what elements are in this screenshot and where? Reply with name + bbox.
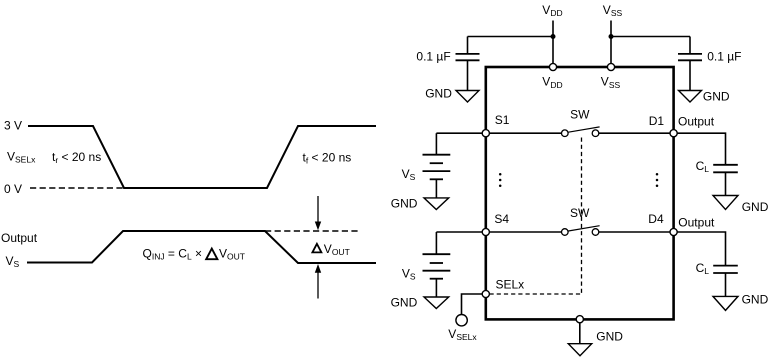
svg-text:S1: S1 [495,113,510,127]
ground battery VS1 [424,198,449,210]
svg-text:VS: VS [6,254,20,269]
svg-text:GND: GND [703,89,730,103]
battery VS1 [423,133,451,198]
svg-text:Output: Output [678,114,715,128]
ground CL1 [713,196,738,210]
svg-text:GND: GND [596,330,623,344]
svg-text:0.1 µF: 0.1 µF [416,50,450,64]
pin S1 [482,130,489,137]
wire S4 to switch [486,231,562,233]
svg-text:VS: VS [402,167,416,182]
svg-text:S4: S4 [494,212,509,226]
svg-text:GND: GND [425,87,452,101]
svg-text:GND: GND [742,292,768,306]
wire S1 to switch [486,132,562,134]
svg-text:tr < 20 ns: tr < 20 ns [52,150,101,165]
capacitor C1 0.1 uF [456,37,480,91]
ground bottom [568,344,591,356]
wire SELx to source [462,294,483,315]
pin VDD [549,63,556,70]
wire control dashed vertical [581,138,583,295]
pin GND bottom [576,316,583,323]
svg-text:CL: CL [696,159,710,174]
capacitor CL1 [713,165,738,196]
svg-text:VSS: VSS [601,75,621,90]
delta symbol of formula [206,249,217,260]
pin SELx [482,290,489,297]
svg-text:SW: SW [570,108,590,122]
svg-text:D4: D4 [648,212,664,226]
svg-text:VSELx: VSELx [448,327,477,342]
svg-text:VDD: VDD [542,75,562,90]
svg-text:Output: Output [1,231,38,245]
svg-text:0 V: 0 V [4,182,22,196]
svg-text:D1: D1 [649,114,665,128]
wire VSS supply [610,21,612,68]
wire switch to D1 [599,132,674,134]
pin D4 [670,228,677,235]
pin D1 [670,130,677,137]
delta symbol of annotation [312,244,321,253]
wire VSELx waveform [28,126,376,188]
wire VSS to right bypass cap [611,36,690,38]
wire battery2 to S4 [436,231,485,233]
arrow up to settled level [315,264,321,299]
svg-text:GND: GND [391,296,418,310]
battery VS2 [423,232,451,297]
svg-text:VSELx: VSELx [7,150,36,165]
ground right bypass [679,91,702,103]
switch IC box U1 [486,67,674,319]
wire dashed plateau reference [265,230,358,232]
wire Output waveform [27,231,376,263]
svg-text:0.1 µF: 0.1 µF [707,50,741,64]
capacitor CL2 [713,266,738,297]
junction VDD bypass [551,34,556,39]
wire VDD supply [552,21,554,68]
wire switch to D4 [599,231,674,233]
wire battery1 to S1 [436,132,485,134]
capacitor C2 0.1 uF [678,37,702,91]
pin VSS [607,63,614,70]
svg-text:VOUT: VOUT [324,242,350,257]
ellipsis dots right [656,173,659,187]
switch SW4 [562,226,600,236]
wire 0V dashed baseline [30,187,124,189]
svg-text:Output: Output [678,216,715,230]
svg-text:GND: GND [742,200,768,214]
ground CL2 [713,296,738,310]
arrow down to plateau [315,196,321,230]
pin S4 [482,228,489,235]
source VSELx [456,315,467,326]
svg-text:VSS: VSS [603,3,623,18]
wire VDD to left bypass cap [468,36,554,38]
svg-text:VOUT: VOUT [219,247,245,262]
wire GND pin to ground [579,323,581,344]
ground battery VS2 [424,297,449,309]
wire D4 output to CL2 [674,232,726,265]
svg-text:CL: CL [696,261,710,276]
svg-text:GND: GND [391,196,418,210]
svg-text:SELx: SELx [496,278,525,292]
wire D1 output to CL1 [674,133,726,164]
svg-text:SW: SW [570,206,590,220]
ground left bypass [456,91,479,103]
svg-text:QINJ = CL ×: QINJ = CL × [143,247,203,262]
svg-text:VDD: VDD [542,3,562,18]
svg-text:tf < 20 ns: tf < 20 ns [303,151,352,166]
switch SW1 [562,127,600,137]
svg-text:VS: VS [402,267,416,282]
ellipsis dots left [499,173,502,187]
wire control dashed horizontal [490,293,582,295]
svg-text:3 V: 3 V [4,119,22,133]
junction VSS bypass [609,34,614,39]
